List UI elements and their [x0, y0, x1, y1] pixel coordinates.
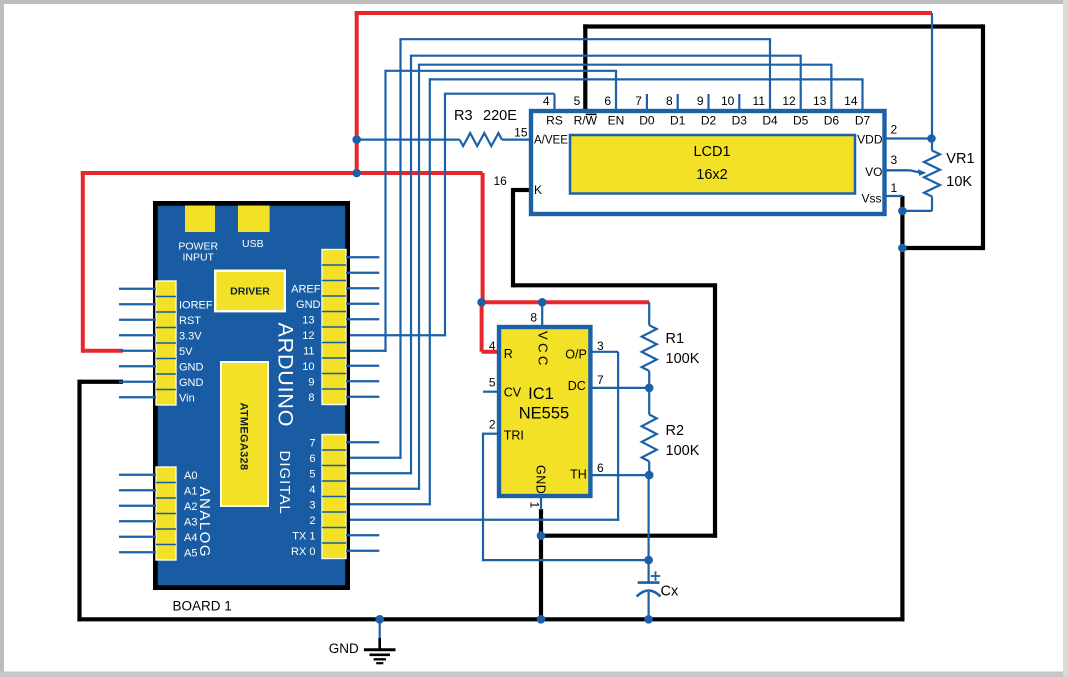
svg-text:EN: EN — [608, 114, 625, 128]
Arduino upper right header strip — [322, 250, 346, 405]
wire NE555 O/P vertical down — [617, 352, 619, 521]
svg-text:9: 9 — [308, 376, 314, 388]
wire stub Arduino right pin nc — [346, 272, 379, 274]
wire red 5V from Arduino 5V pin going left — [83, 349, 123, 353]
wire black down right of NE555 — [713, 285, 717, 538]
wire D11 vertical up — [384, 70, 386, 352]
svg-text:A2: A2 — [184, 501, 197, 513]
wire blue from red rail down to VDD node — [931, 13, 933, 140]
Arduino driver chip block DRIVER — [215, 271, 285, 312]
junction node red tee — [352, 169, 361, 178]
wire 5V rail to R3 — [357, 139, 460, 141]
wire LCD pin3 VO stub — [887, 169, 909, 171]
IC U1: NE555 timer IC1 — [499, 327, 590, 496]
svg-text:15: 15 — [514, 126, 528, 140]
wire red branch down to pin 4 R — [480, 302, 484, 352]
wire NE555 pin2 TRI stub — [483, 433, 498, 435]
svg-text:ATMEGA328: ATMEGA328 — [238, 403, 250, 471]
svg-text:6: 6 — [597, 461, 604, 475]
wire black vertical Vss to ground bus — [900, 196, 904, 621]
svg-text:A0: A0 — [184, 470, 197, 482]
junction node ground K wire — [537, 531, 546, 540]
svg-text:7: 7 — [309, 437, 315, 449]
svg-text:11: 11 — [303, 345, 314, 357]
wire stub Arduino analog pin A1 — [119, 489, 156, 491]
wire down into LCD pin 11 D4 — [769, 39, 771, 109]
svg-text:12: 12 — [302, 330, 314, 342]
svg-text:2: 2 — [489, 418, 496, 432]
svg-text:ANALOG: ANALOG — [196, 487, 213, 559]
wire stub Arduino left pin Vin — [119, 396, 156, 398]
LCD1 display window — [570, 135, 855, 194]
junction node black right tee — [898, 244, 907, 253]
wire Arduino D12 stub right — [346, 334, 446, 336]
svg-text:TRI: TRI — [504, 429, 524, 443]
svg-text:5V: 5V — [179, 346, 193, 358]
svg-text:IC1: IC1 — [528, 385, 554, 403]
wire stub LCD top pin at x=677.7 — [677, 94, 679, 109]
svg-text:Vin: Vin — [179, 392, 195, 404]
svg-text:11: 11 — [753, 94, 766, 108]
wire D5 vertical up — [410, 55, 412, 475]
svg-text:NE555: NE555 — [519, 405, 569, 423]
wire red VCC rail above NE555 — [481, 300, 650, 304]
svg-text:VO: VO — [865, 165, 882, 179]
wire Arduino D5 stub right — [346, 472, 412, 474]
wire VR1 bottom down — [931, 197, 933, 211]
svg-text:3: 3 — [597, 339, 604, 353]
LCD module LCD1 16x2 — [531, 111, 885, 214]
svg-text:100K: 100K — [666, 443, 700, 459]
junction node VDD / VR1 top — [927, 134, 936, 143]
wire black right vertical down — [981, 24, 985, 250]
svg-text:A5: A5 — [184, 547, 197, 559]
svg-text:R2: R2 — [666, 423, 685, 439]
svg-text:D2: D2 — [701, 114, 717, 128]
wire stub Arduino pin TX 1 — [346, 534, 379, 536]
svg-text:3: 3 — [891, 153, 898, 167]
svg-text:USB: USB — [242, 238, 264, 250]
svg-text:A4: A4 — [184, 532, 197, 544]
Arduino left power header strip — [156, 281, 176, 405]
svg-text:3: 3 — [309, 499, 315, 511]
junction node bus / GND symbol — [375, 615, 384, 624]
wire stub Arduino right pin 13 — [346, 318, 379, 320]
Arduino lower right digital header strip — [322, 435, 346, 559]
svg-text:5: 5 — [574, 94, 581, 108]
wire stub Arduino left pin IOREF — [119, 303, 156, 305]
wire D3 vertical up — [429, 78, 431, 505]
wire NE555 pin5 CV stub — [483, 391, 498, 393]
junction node bus / Cx — [644, 615, 653, 624]
svg-text:R3: R3 — [454, 108, 473, 124]
svg-text:IOREF: IOREF — [179, 299, 213, 311]
svg-text:D7: D7 — [855, 114, 871, 128]
svg-text:Vss: Vss — [861, 192, 881, 206]
svg-text:RX 0: RX 0 — [291, 546, 315, 558]
wire NE555 pin1 GND stub — [540, 498, 542, 510]
svg-text:A3: A3 — [184, 516, 197, 528]
svg-text:AREF: AREF — [291, 283, 321, 295]
svg-text:GND: GND — [179, 361, 204, 373]
wire stub Arduino pin RX 0 — [346, 550, 379, 552]
wire stub Arduino left pin RST — [119, 319, 156, 321]
svg-text:RST: RST — [179, 315, 201, 327]
svg-text:4: 4 — [543, 94, 550, 108]
wire down into LCD pin 6 EN — [615, 71, 617, 109]
wire NE555 pin3 O/P stub — [592, 351, 618, 353]
svg-text:1: 1 — [891, 181, 898, 195]
svg-text:220E: 220E — [483, 108, 517, 124]
resistor R3 220E — [460, 133, 502, 146]
svg-text:O/P: O/P — [565, 348, 587, 362]
wire black NE555 pin1 down to bus — [539, 509, 543, 619]
svg-text:R1: R1 — [666, 331, 685, 347]
Arduino board BOARD 1 — [155, 203, 347, 587]
svg-text:16: 16 — [493, 174, 507, 188]
wire stub Arduino left pin 3.3V — [119, 334, 156, 336]
wire black top horizontal to right side — [583, 24, 983, 28]
svg-text:6: 6 — [309, 453, 315, 465]
svg-text:5: 5 — [489, 376, 496, 390]
wire R1 bottom to R2 top through DC node — [648, 371, 650, 415]
wire black bottom ground bus — [77, 617, 904, 621]
wire stub Arduino pin 7 — [346, 441, 379, 443]
junction node DC/R1/R2 — [645, 384, 654, 393]
wire red vertical down to NE555 VCC rail — [481, 173, 485, 302]
svg-text:K: K — [534, 183, 542, 197]
wire stub Arduino right pin nc — [346, 256, 379, 258]
svg-text:GND: GND — [179, 377, 204, 389]
resistor R2 100K — [642, 415, 657, 462]
svg-text:Cx: Cx — [661, 584, 679, 600]
wire black ground symbol tail — [378, 638, 381, 650]
wire red horizontal mid to LCD area — [81, 171, 483, 175]
wire down into LCD pin 13 D6 — [830, 65, 832, 109]
wire black LCD pin16 K stub — [513, 188, 529, 192]
svg-text:9: 9 — [697, 94, 704, 108]
overline on W of R/W — [586, 113, 597, 115]
wire stub Arduino right pin 8 — [346, 396, 379, 398]
wire Arduino D3 stub right — [346, 503, 431, 505]
svg-text:10: 10 — [302, 361, 314, 373]
wire D5 horizontal to LCD D5 — [411, 55, 802, 57]
wire Arduino D4 stub right — [346, 488, 420, 490]
resistor R1 100K — [642, 325, 657, 371]
wire D6 horizontal to LCD D4 — [401, 38, 772, 40]
wire red into NE555 pin 4 R — [482, 350, 498, 354]
svg-text:RS: RS — [546, 114, 563, 128]
wire stub Arduino right pin AREF — [346, 287, 379, 289]
wire down into LCD pin 4 RS — [553, 94, 555, 109]
svg-text:DC: DC — [568, 379, 586, 393]
wire R3 to LCD pin 15 A/VEE — [502, 139, 529, 141]
wire NE555 pin8 VCC stub — [541, 302, 543, 327]
wire D6 vertical up — [399, 38, 401, 459]
svg-text:2: 2 — [309, 515, 315, 527]
wire VCC rail to R1 top — [648, 302, 650, 325]
wire stub Arduino left pin nc — [119, 288, 156, 290]
svg-text:DRIVER: DRIVER — [230, 286, 270, 298]
svg-text:10K: 10K — [946, 174, 972, 190]
Arduino power input connector — [185, 206, 215, 233]
svg-text:INPUT: INPUT — [182, 252, 214, 264]
svg-text:13: 13 — [302, 314, 314, 326]
wire black left vertical up to Arduino GND — [77, 380, 81, 622]
svg-text:8: 8 — [666, 94, 673, 108]
wire VR1 bottom to Vss line — [902, 210, 932, 212]
wire LCD pin1 Vss stub — [887, 195, 904, 197]
junction node 5V/R3 branch — [352, 135, 361, 144]
svg-text:R: R — [504, 347, 513, 361]
wire stub Arduino analog pin A3 — [119, 520, 156, 522]
junction node VCC pin8 — [538, 298, 547, 307]
svg-text:6: 6 — [604, 94, 611, 108]
svg-text:8: 8 — [530, 311, 537, 325]
svg-text:VDD: VDD — [857, 133, 883, 147]
wire stub Arduino left pin GND — [119, 365, 156, 367]
wire down into LCD pin 12 D5 — [800, 56, 802, 109]
svg-text:3.3V: 3.3V — [179, 330, 202, 342]
junction node VCC rail left — [477, 298, 486, 307]
wire down into LCD pin 14 D7 — [861, 79, 863, 109]
svg-text:13: 13 — [813, 94, 827, 108]
svg-text:BOARD 1: BOARD 1 — [173, 599, 232, 614]
svg-text:CV: CV — [504, 386, 522, 400]
svg-text:LCD1: LCD1 — [693, 144, 730, 160]
svg-text:5: 5 — [309, 468, 315, 480]
svg-text:D5: D5 — [793, 114, 809, 128]
wire black K horizontal right — [513, 283, 717, 287]
svg-text:D4: D4 — [762, 114, 778, 128]
wire stub Arduino right pin 9 — [346, 380, 379, 382]
svg-text:TX 1: TX 1 — [292, 530, 315, 542]
wire black horizontal joining Vss drop — [900, 246, 983, 250]
wire D12 horizontal to LCD RS — [445, 93, 555, 95]
capacitor Cx (polarized, device under test) — [638, 581, 660, 584]
wire black K down — [511, 188, 515, 287]
svg-text:ARDUINO: ARDUINO — [274, 323, 298, 428]
ground symbol GND — [364, 650, 396, 664]
wire stub Arduino analog pin A0 — [119, 474, 156, 476]
wire red vertical up left side — [81, 171, 85, 353]
Arduino USB connector — [238, 206, 270, 233]
svg-text:D3: D3 — [732, 114, 748, 128]
wire stub Arduino left pin GND — [119, 381, 156, 383]
wire stub Arduino left pin 5V — [119, 350, 156, 352]
Arduino MCU block ATMEGA328 — [221, 362, 268, 506]
junction node bus / NE555 gnd — [537, 615, 546, 624]
svg-text:100K: 100K — [666, 351, 700, 367]
wire black to NE555 ground node — [541, 534, 717, 538]
svg-text:D6: D6 — [824, 114, 840, 128]
wire TRI horizontal to Cx node — [483, 559, 649, 561]
wire D4 horizontal to LCD D6 — [419, 64, 833, 66]
wire stub Arduino analog pin A2 — [119, 505, 156, 507]
wire black into Arduino GND pin — [80, 380, 124, 384]
wire black LCD pin5 R/W up — [583, 24, 587, 109]
wire TRI vertical down — [482, 433, 484, 562]
wire stub Arduino right pin GND — [346, 303, 379, 305]
svg-text:A/VEE: A/VEE — [534, 135, 568, 147]
svg-text:16x2: 16x2 — [696, 167, 727, 183]
wire stub LCD top pin at x=708.5 — [707, 94, 709, 109]
wire red vertical up to top rail — [355, 11, 359, 173]
wire NE555 pin7 DC to R1 R2 node — [592, 387, 649, 389]
VR1 wiper arrow — [887, 170, 921, 172]
wire D3 horizontal to LCD D7 — [430, 78, 864, 80]
wire D4 vertical up — [418, 64, 420, 490]
wire D12 vertical up — [444, 93, 446, 337]
wire stub Arduino analog pin A5 — [119, 551, 156, 553]
label + polarity for Cx — [651, 575, 660, 577]
wire D11 horizontal to LCD EN — [386, 70, 618, 72]
potentiometer VR1 10K — [924, 151, 940, 197]
wire R2 bottom to TH node — [648, 461, 650, 475]
svg-text:1: 1 — [528, 502, 542, 509]
svg-text:GND: GND — [329, 641, 359, 656]
junction node TRI/Cx — [644, 556, 653, 565]
svg-text:D1: D1 — [670, 114, 686, 128]
svg-text:4: 4 — [489, 339, 496, 353]
svg-text:D0: D0 — [639, 114, 655, 128]
wire Arduino D6 stub right — [346, 457, 402, 459]
svg-text:GND: GND — [296, 299, 321, 311]
svg-text:7: 7 — [635, 94, 642, 108]
svg-text:8: 8 — [308, 392, 314, 404]
wire LCD pin2 VDD stub — [887, 137, 933, 139]
svg-text:12: 12 — [782, 94, 796, 108]
svg-text:VR1: VR1 — [946, 151, 974, 167]
svg-text:TH: TH — [570, 468, 587, 482]
wire NE555 pin6 TH to R2 node — [592, 474, 649, 476]
svg-text:7: 7 — [597, 373, 604, 387]
wire red top horizontal rail to VDD drop — [355, 11, 932, 15]
svg-text:VCC: VCC — [536, 331, 551, 369]
Arduino analog header strip — [156, 467, 176, 560]
junction node Vss / VR1 bottom — [898, 207, 907, 216]
wire stub Arduino right pin 10 — [346, 365, 379, 367]
svg-text:GND: GND — [534, 465, 548, 494]
svg-text:2: 2 — [891, 123, 898, 137]
wire Arduino D11 stub right — [346, 350, 387, 352]
svg-text:4: 4 — [309, 484, 315, 496]
svg-text:R/W: R/W — [574, 114, 598, 128]
wire VDD node to VR1 top — [931, 139, 933, 151]
wire stub LCD top pin at x=646.9 — [646, 94, 648, 109]
svg-text:A1: A1 — [184, 485, 197, 497]
wire Arduino D2 to NE555 output — [346, 519, 619, 521]
wire stub Arduino analog pin A4 — [119, 536, 156, 538]
junction node TH/R2 — [645, 471, 654, 480]
wire TH node down to Cx — [647, 475, 649, 582]
svg-text:DIGITAL: DIGITAL — [276, 451, 293, 515]
svg-text:14: 14 — [844, 94, 858, 108]
wire stub LCD top pin at x=739.3 — [738, 94, 740, 109]
svg-text:10: 10 — [721, 94, 735, 108]
wire ground symbol tail upper — [379, 619, 381, 640]
